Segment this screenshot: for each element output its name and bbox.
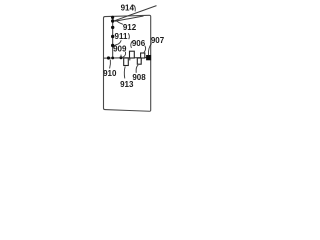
svg-text:911: 911: [115, 32, 128, 41]
svg-text:910: 910: [103, 69, 117, 78]
svg-text:906: 906: [132, 39, 146, 48]
svg-text:909: 909: [113, 44, 127, 53]
svg-text:908: 908: [132, 73, 146, 82]
svg-text:914: 914: [121, 4, 135, 13]
svg-text:912: 912: [123, 23, 137, 32]
svg-text:907: 907: [151, 36, 165, 45]
